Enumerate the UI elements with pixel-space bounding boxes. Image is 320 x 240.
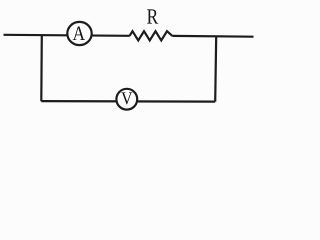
wire: top-right segment from resistor to right terminal (172, 35, 253, 38)
wire: left vertical branch (40, 35, 43, 101)
label A (ammeter letter) (73, 27, 85, 40)
ammeter A circle (67, 22, 91, 45)
wire: bottom segment (41, 100, 215, 103)
resistor R zigzag (130, 31, 173, 40)
wire: right vertical branch (215, 36, 216, 101)
label V (voltmeter letter) (121, 92, 132, 104)
wire: top-left segment from left terminal to resistor (4, 35, 130, 36)
label R (resistor label) (147, 9, 158, 23)
voltmeter V circle (116, 89, 137, 110)
